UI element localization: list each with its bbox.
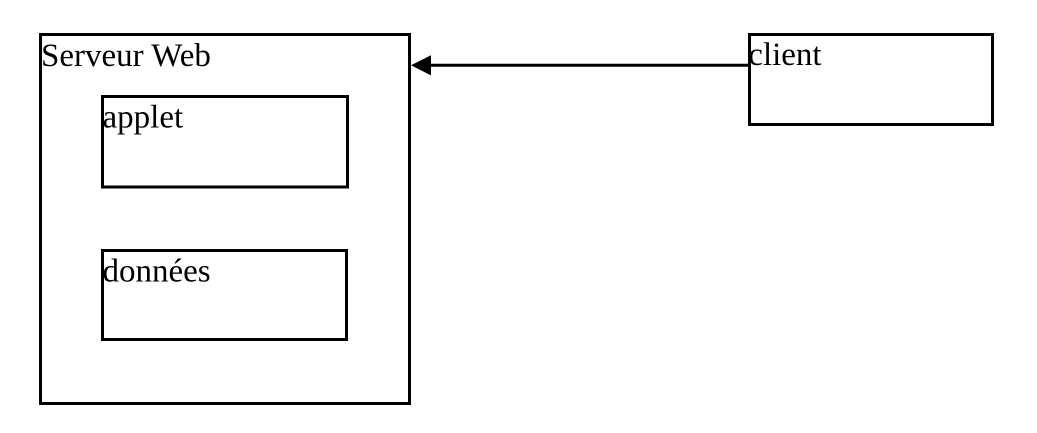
arrowhead pointing left at Serveur Web — [411, 55, 431, 75]
box applet — [103, 97, 348, 188]
box données — [103, 251, 347, 340]
svg-text:données: données — [103, 253, 211, 289]
svg-text:Serveur Web: Serveur Web — [41, 38, 211, 74]
box client — [750, 35, 993, 125]
wire arrow shaft client to Serveur Web — [429, 64, 748, 67]
box Serveur Web — [41, 35, 410, 404]
svg-text:applet: applet — [103, 100, 184, 136]
svg-text:client: client — [748, 37, 821, 73]
